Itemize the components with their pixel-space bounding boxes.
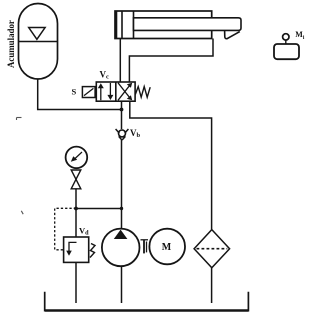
svg-text:M: M (162, 242, 172, 253)
svg-text:Acumulador: Acumulador (6, 20, 16, 68)
svg-text:S: S (72, 87, 77, 97)
